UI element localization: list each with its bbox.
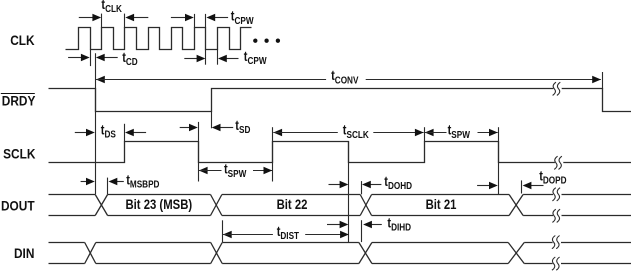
label tSPW high [448,123,471,140]
bus label Bit 21 [426,197,457,212]
dimension arrow tSCLK right [373,129,423,136]
dimension arrow tCLK left [79,14,101,21]
signal label DRDY overline [1,93,35,95]
label tSD [235,118,250,135]
dimension arrow tDIST right [305,231,349,238]
extension line CLK rising edge 6 [194,14,196,28]
svg-text:DIN: DIN [14,245,34,261]
extension tick DOUT MSB valid [107,178,109,195]
svg-text:tSPW: tSPW [224,162,247,179]
svg-text:tSPW: tSPW [448,123,471,140]
dimension arrow tSPW-low right [253,167,272,174]
svg-text:Bit 23 (MSB): Bit 23 (MSB) [125,197,192,212]
svg-text:tDOPD: tDOPD [539,168,567,185]
dimension arrow tSPW-high right [478,129,498,136]
label tCONV [331,68,359,85]
label tCPW low [244,49,267,66]
signal label SCLK [3,146,36,162]
wire DOUT bus [49,195,631,216]
svg-text:tCPW: tCPW [231,9,254,26]
label tDOPD [539,168,567,185]
label tSPW low [224,162,247,179]
wire DRDY waveform [49,89,631,112]
dimension arrow tDOHD left [329,181,349,188]
svg-text:DOUT: DOUT [1,198,35,214]
svg-text:tCD: tCD [122,50,138,67]
svg-text:tCPW: tCPW [244,49,267,66]
svg-text:tMSBPD: tMSBPD [126,172,160,189]
extension tick DOUT bit21 end [521,180,523,193]
dimension arrow tMSBPD left [81,178,95,185]
label tMSBPD [126,172,160,189]
dimension arrow tMSBPD right [109,178,124,185]
extension line CLK falling edge 6 below [205,49,207,64]
extension line DRDY final falling edge above [602,72,604,89]
svg-text:tCLK: tCLK [101,0,122,14]
extension tick DIN hold end [361,220,363,242]
extension line CLK falling edge 1 [90,49,92,66]
svg-text:SCLK: SCLK [3,146,36,162]
svg-text:Bit 22: Bit 22 [277,197,308,212]
extension line SCLK falling edge 2 (long) [348,141,350,242]
bus label Bit 23 (MSB) [125,197,192,212]
break mark DOUT bottom line [552,209,561,222]
dimension arrow tCPW-low right [218,55,239,62]
svg-text:tDIHD: tDIHD [387,215,411,232]
break mark SCLK low line [554,156,563,169]
dimension arrow tSCLK left [273,129,338,136]
dimension arrow tDOPD left [477,182,498,189]
svg-text:Bit 21: Bit 21 [426,197,457,212]
signal label DRDY [2,93,36,109]
dimension arrow tCPW-low left [184,55,205,62]
signal label DIN [14,245,34,261]
svg-text:tSD: tSD [235,118,250,135]
svg-text:DRDY: DRDY [2,93,36,109]
extension line SCLK falling edge 3 [498,127,500,194]
CLK continuation dots [253,39,280,43]
dimension arrow tSD right [212,124,234,131]
dimension arrow tCPW-high left [171,14,194,21]
svg-text:tDOHD: tDOHD [384,174,412,191]
label tCLK [101,0,122,14]
extension tick DOUT bit22 hold [361,181,363,194]
extension tick DIN setup start [222,220,224,242]
label tCPW high [231,9,254,26]
dimension arrow tSD left [180,124,198,131]
dimension arrow tDS left [75,129,95,136]
extension line SCLK rising edge 2 [272,127,274,181]
wire CLK waveform [66,28,252,50]
signal label CLK [10,32,35,48]
dimension arrow tDIHD right [363,221,382,228]
label tSCLK [343,123,369,140]
extension line CLK rising edge 2 [101,14,103,28]
break mark DIN top line [552,236,561,249]
extension line CLK falling edge 6 [205,14,207,28]
dimension arrow tCONV left [96,76,326,83]
extension line DRDY falling edge (long) [95,53,97,194]
extension line DRDY rising edge below [211,111,213,128]
dimension arrow tDOPD right [523,182,544,189]
dimension arrow tCPW-high right [206,14,228,21]
dimension arrow tSPW-low left [199,167,222,174]
dimension arrow tCONV right [366,76,601,83]
bus label Bit 22 [277,197,308,212]
dimension arrow tDIST left [223,231,273,238]
label tDIST [277,224,300,241]
label tDOHD [384,174,412,191]
svg-text:CLK: CLK [10,32,35,48]
dimension arrow tCD left [68,54,90,61]
dimension arrow tCD right [96,54,118,61]
svg-text:tDS: tDS [101,122,116,139]
extension line CLK rising edge 7 below [217,49,219,64]
svg-text:tDIST: tDIST [277,224,300,241]
extension line SCLK rising edge 1 above [124,124,126,142]
break mark DRDY high line [553,82,562,95]
wire SCLK waveform [49,142,631,163]
break mark DOUT top line [552,188,561,201]
label tDS [101,122,116,139]
break mark DIN bottom line [552,257,561,270]
label tDIHD [387,215,411,232]
dimension arrow tDOHD right [362,181,381,188]
dimension arrow tDIHD left [327,221,348,228]
svg-text:tCONV: tCONV [331,68,359,85]
dimension arrow tDS right [125,129,146,136]
label tCD [122,50,138,67]
signal label DOUT [1,198,35,214]
extension line CLK rising edge 3 [124,14,126,28]
extension line SCLK falling edge 1 [198,122,200,182]
svg-text:tSCLK: tSCLK [343,123,369,140]
dimension arrow tSPW-high left [425,129,447,136]
dimension arrow tCLK right [125,14,148,21]
wire DIN bus [49,243,631,264]
extension line SCLK rising edge 3 above [424,127,426,141]
